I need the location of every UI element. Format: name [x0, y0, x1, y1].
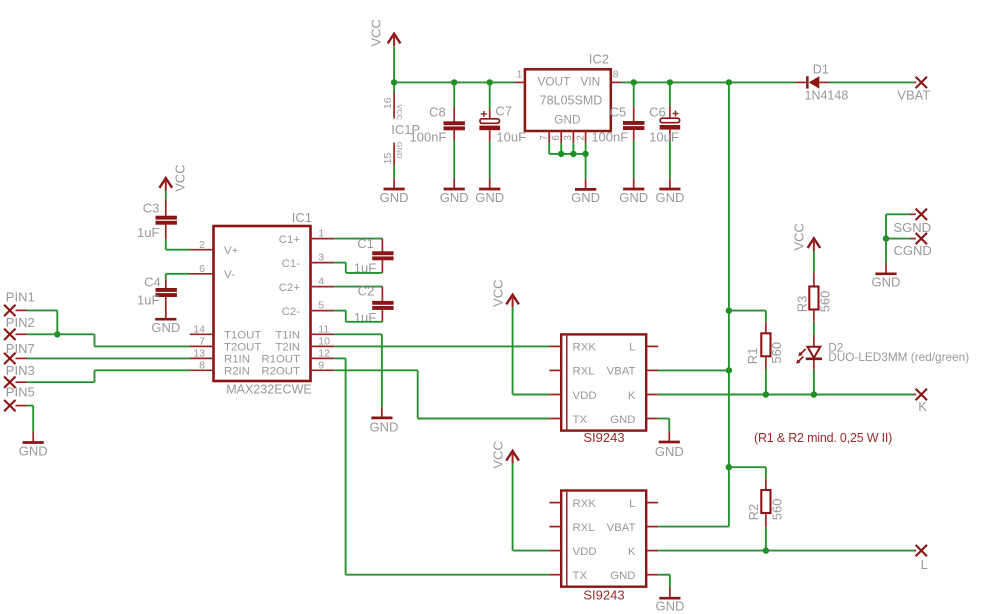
wire SGND to CGND: [886, 214, 910, 238]
svg-text:GND: GND: [475, 190, 504, 205]
ground under CGND: [872, 263, 901, 290]
note text R1/R2 power rating: [754, 431, 892, 445]
svg-text:560: 560: [769, 342, 784, 364]
wire IC1 pin 4 to C2: [334, 286, 382, 288]
svg-text:C3: C3: [143, 201, 160, 216]
wire D2 to K net: [813, 370, 815, 395]
svg-text:4: 4: [318, 276, 324, 288]
ground under SI9243#2: [655, 587, 684, 613]
svg-text:GND: GND: [395, 142, 404, 159]
svg-text:1uF: 1uF: [137, 293, 159, 308]
net flag CGND: [894, 233, 932, 258]
wire IC1 pin 9 (R2OUT) to SI9243#1 TX: [334, 370, 549, 418]
wire IC1 pin 6 to C4: [166, 274, 190, 279]
IC U2 SI9243 (upper): [549, 334, 658, 444]
svg-text:R2OUT: R2OUT: [261, 366, 300, 378]
svg-text:GND: GND: [554, 113, 580, 127]
svg-text:PIN5: PIN5: [6, 385, 35, 400]
svg-text:2: 2: [575, 135, 586, 141]
wire PIN1 to PIN2 net: [27, 310, 57, 334]
wire IC1 pin 3 to C1: [334, 263, 382, 273]
svg-text:VCC: VCC: [395, 104, 404, 120]
net flag VBAT: [897, 77, 930, 103]
svg-text:VDD: VDD: [573, 546, 597, 558]
svg-text:GND: GND: [370, 419, 399, 434]
wire IC1 pin 10 (T2IN) to SI9243#1 RXK: [334, 345, 549, 347]
svg-text:V-: V-: [224, 269, 235, 281]
svg-text:IC1: IC1: [292, 210, 312, 225]
svg-text:RXK: RXK: [573, 498, 597, 510]
junction IC2 gnd pin 6: [558, 151, 564, 157]
power symbol VCC at C3: [160, 164, 188, 191]
wire CGND to ground: [886, 239, 910, 263]
svg-text:GND: GND: [619, 190, 648, 205]
IC2 pin 1 stub: [515, 69, 525, 83]
svg-text:MAX232ECWE: MAX232ECWE: [226, 383, 311, 397]
ground under C5: [619, 178, 648, 205]
connector pin flag PIN7: [4, 341, 35, 364]
net flag L: [914, 545, 928, 572]
junction K at R1: [763, 391, 769, 397]
svg-text:GND: GND: [151, 320, 180, 335]
LED D2 DUO-LED3MM: [796, 335, 969, 370]
ground under PIN5: [19, 432, 48, 459]
power symbol VCC (top rail): [368, 19, 400, 46]
net flag K: [914, 389, 927, 414]
wire IC1 pin 5 to C2: [334, 311, 382, 322]
ground under C4: [151, 308, 180, 335]
wire VCC to C3: [165, 191, 167, 200]
capacitor C2 1uF: [354, 283, 394, 325]
junction IC2 gnd pin 2: [582, 151, 588, 157]
svg-text:13: 13: [193, 348, 205, 360]
wire SI9243#1 VBAT to right rail: [658, 369, 729, 371]
svg-text:78L05SMD: 78L05SMD: [540, 94, 603, 108]
capacitor C1 1uF: [354, 236, 394, 275]
wire C3 to IC1 pin 2: [166, 239, 190, 250]
svg-text:RXK: RXK: [573, 342, 597, 354]
svg-text:C4: C4: [144, 275, 161, 290]
wire VCC to R3: [813, 251, 815, 273]
svg-text:SGND: SGND: [894, 220, 932, 235]
svg-text:K: K: [628, 546, 636, 558]
capacitor C6 10uF (polarized): [649, 82, 680, 178]
svg-text:R3: R3: [794, 296, 809, 313]
svg-text:TX: TX: [573, 570, 588, 582]
svg-text:100nF: 100nF: [410, 130, 447, 145]
wire VCC to SI9243#2 VDD: [513, 463, 550, 550]
svg-text:16: 16: [382, 97, 394, 109]
ground under C6: [655, 178, 684, 205]
power symbol VCC for SI9243#1: [491, 279, 519, 307]
connector pin flag PIN5: [4, 385, 35, 412]
resistor R1 560: [729, 311, 784, 395]
wire D1 to VBAT flag: [829, 81, 914, 83]
svg-text:GND: GND: [380, 190, 409, 205]
wire IC1 pin 11 (T1IN) to ground: [334, 334, 382, 407]
svg-text:VBAT: VBAT: [897, 88, 930, 103]
svg-text:GND: GND: [610, 570, 635, 582]
svg-text:V+: V+: [224, 245, 239, 257]
svg-text:10: 10: [318, 336, 330, 348]
svg-text:R1IN: R1IN: [224, 354, 250, 366]
svg-text:C1: C1: [357, 236, 374, 251]
svg-text:100nF: 100nF: [591, 130, 628, 145]
wire SI9243#2 VBAT to right rail: [658, 467, 729, 526]
junction IC2 gnd pin 3: [570, 151, 576, 157]
svg-text:TX: TX: [573, 414, 588, 426]
svg-text:6: 6: [199, 263, 205, 275]
junction K at D2: [811, 391, 817, 397]
svg-text:2: 2: [199, 239, 205, 251]
svg-text:VCC: VCC: [173, 164, 188, 191]
wire top rail right segment: [621, 81, 796, 83]
svg-text:14: 14: [193, 323, 205, 335]
junction SGND/CGND: [883, 235, 889, 241]
junction top rail at C5: [631, 79, 637, 85]
svg-text:PIN1: PIN1: [6, 290, 35, 305]
svg-text:RXL: RXL: [573, 366, 595, 378]
svg-text:VBAT: VBAT: [607, 522, 636, 534]
wire IC1 pin 1 to C1: [334, 238, 382, 240]
svg-text:CGND: CGND: [894, 243, 932, 258]
svg-text:1: 1: [517, 69, 523, 81]
svg-text:8: 8: [199, 359, 205, 371]
svg-text:VCC: VCC: [491, 279, 506, 306]
svg-text:VCC: VCC: [491, 441, 506, 468]
capacitor C7 10uF (polarized): [479, 82, 526, 178]
svg-text:11: 11: [318, 323, 329, 335]
svg-text:C2-: C2-: [282, 306, 301, 318]
svg-text:VCC: VCC: [791, 223, 806, 250]
svg-text:T1OUT: T1OUT: [224, 330, 261, 342]
svg-text:R2: R2: [746, 504, 761, 521]
svg-text:C7: C7: [495, 104, 512, 119]
svg-text:DUO-LED3MM (red/green): DUO-LED3MM (red/green): [828, 350, 969, 364]
junction L net at R2: [763, 547, 769, 553]
net flag SGND: [894, 209, 932, 235]
voltage regulator IC2 78L05SMD: [525, 51, 611, 131]
svg-text:C1+: C1+: [279, 234, 301, 246]
svg-text:GND: GND: [571, 190, 600, 205]
svg-text:C2: C2: [358, 283, 375, 298]
ground under IC1P: [380, 178, 409, 205]
svg-text:VCC: VCC: [368, 19, 383, 46]
resistor R3 560: [794, 272, 832, 322]
IC1 power pin 16 (VCC) IC1P: [382, 82, 420, 136]
wire top rail left segment: [394, 81, 514, 83]
capacitor C3 1uF: [137, 199, 177, 239]
svg-text:C2+: C2+: [279, 282, 301, 294]
svg-text:9: 9: [318, 359, 324, 371]
svg-text:GND: GND: [655, 444, 684, 459]
svg-text:PIN7: PIN7: [6, 341, 35, 356]
svg-text:D1: D1: [813, 62, 829, 76]
IC2 ground pins 7,6,3,2: [539, 131, 586, 143]
capacitor C5 100nF: [591, 82, 644, 178]
right vertical rail: [728, 82, 730, 467]
svg-text:VDD: VDD: [573, 390, 597, 402]
svg-text:L: L: [629, 342, 635, 354]
capacitor C4 1uF: [137, 275, 177, 309]
connector pin flag PIN1: [4, 290, 35, 317]
svg-text:IC2: IC2: [589, 51, 609, 66]
junction right rail at VBAT2/R2: [726, 464, 732, 470]
svg-text:10uF: 10uF: [649, 130, 679, 145]
resistor R2 560: [729, 467, 784, 550]
ground under C7: [475, 178, 504, 205]
svg-text:T2IN: T2IN: [275, 342, 300, 354]
svg-text:GND: GND: [610, 414, 635, 426]
svg-text:1uF: 1uF: [354, 310, 376, 325]
ground under IC2: [571, 179, 600, 206]
svg-text:C5: C5: [610, 104, 627, 119]
wire SI9243#2 GND to ground: [658, 575, 670, 588]
svg-text:7: 7: [199, 336, 205, 348]
svg-text:VBAT: VBAT: [607, 366, 636, 378]
svg-text:560: 560: [818, 291, 833, 313]
svg-text:GND: GND: [19, 443, 48, 458]
svg-text:K: K: [628, 390, 636, 402]
IC U3 SI9243 (lower): [549, 491, 658, 603]
power symbol VCC at R3: [791, 223, 820, 251]
svg-text:GND: GND: [655, 599, 684, 614]
svg-text:1: 1: [318, 228, 324, 240]
svg-text:SI9243: SI9243: [583, 430, 624, 445]
wire IC1 pin 12 (R1OUT) to SI9243#2 TX: [334, 358, 549, 574]
svg-text:T1IN: T1IN: [275, 330, 300, 342]
svg-text:GND: GND: [655, 190, 684, 205]
connector pin flag PIN2: [4, 315, 35, 340]
svg-text:10uF: 10uF: [496, 130, 526, 145]
junction right rail at R1 branch: [726, 307, 732, 313]
svg-text:K: K: [918, 399, 927, 414]
ground under C8: [440, 178, 469, 205]
svg-text:T2OUT: T2OUT: [224, 342, 261, 354]
wire PIN3 to IC1 pin 8: [27, 370, 190, 382]
wire L net (SI9243#2 K to flag): [658, 550, 914, 552]
svg-text:(R1 & R2 mind. 0,25 W II): (R1 & R2 mind. 0,25 W II): [754, 431, 892, 445]
svg-text:7: 7: [539, 135, 550, 141]
junction VBAT1 on right rail: [726, 367, 732, 373]
svg-text:PIN3: PIN3: [6, 363, 35, 378]
svg-text:C8: C8: [429, 104, 446, 119]
svg-text:560: 560: [769, 498, 784, 520]
svg-text:12: 12: [318, 348, 330, 360]
svg-text:GND: GND: [872, 275, 901, 290]
ground under T1IN: [370, 407, 399, 434]
junction top rail at VCC: [391, 79, 397, 85]
svg-text:8: 8: [613, 69, 619, 81]
svg-text:15: 15: [382, 153, 394, 165]
svg-text:R2IN: R2IN: [224, 366, 250, 378]
IC2 pin 8 stub: [611, 69, 621, 83]
svg-text:R1OUT: R1OUT: [261, 354, 300, 366]
svg-text:VOUT: VOUT: [538, 74, 571, 88]
junction top rail at right vertical: [726, 79, 732, 85]
svg-text:1N4148: 1N4148: [805, 89, 849, 103]
svg-text:VIN: VIN: [581, 74, 601, 88]
wire R3 to D2: [813, 322, 815, 335]
svg-text:SI9243: SI9243: [583, 587, 624, 602]
wire PIN2 to IC1 pin 7: [27, 334, 190, 346]
capacitor C8 100nF: [410, 82, 465, 178]
wire VCC to SI9243#1 VDD: [513, 307, 550, 394]
junction top rail at C7: [487, 79, 493, 85]
wire SI9243#1 GND to ground: [658, 419, 669, 432]
svg-text:3: 3: [318, 252, 324, 264]
svg-text:C1-: C1-: [282, 258, 301, 270]
wire PIN7 to IC1 pin 13: [27, 357, 190, 359]
svg-text:L: L: [921, 557, 928, 572]
IC1 power pin 15 (GND) IC1P: [382, 142, 404, 166]
wire K net (SI9243#1 K to flag): [658, 394, 914, 396]
diode D1 1N4148: [796, 62, 849, 102]
svg-text:1uF: 1uF: [137, 225, 159, 240]
junction top rail at C6: [667, 79, 673, 85]
svg-text:PIN2: PIN2: [6, 315, 35, 330]
svg-text:6: 6: [551, 135, 562, 141]
svg-text:RXL: RXL: [573, 522, 595, 534]
ground under SI9243#1: [655, 431, 684, 459]
IC U1 MAX232ECWE (IC1): [190, 210, 334, 397]
wire IC2 ground bus: [549, 143, 585, 179]
svg-text:L: L: [629, 498, 635, 510]
svg-text:R1: R1: [745, 348, 760, 365]
wire pin15 to ground: [393, 166, 395, 179]
junction PIN1/PIN2: [54, 331, 60, 337]
power symbol VCC for SI9243#2: [491, 441, 519, 468]
svg-text:3: 3: [563, 135, 574, 141]
wire PIN5 to ground: [27, 406, 33, 432]
svg-text:GND: GND: [440, 190, 469, 205]
svg-text:C6: C6: [649, 104, 666, 119]
connector pin flag PIN3: [4, 363, 35, 388]
svg-text:5: 5: [318, 300, 324, 312]
wire VCC stem to top rail: [393, 46, 395, 82]
junction top rail at C8: [451, 79, 457, 85]
